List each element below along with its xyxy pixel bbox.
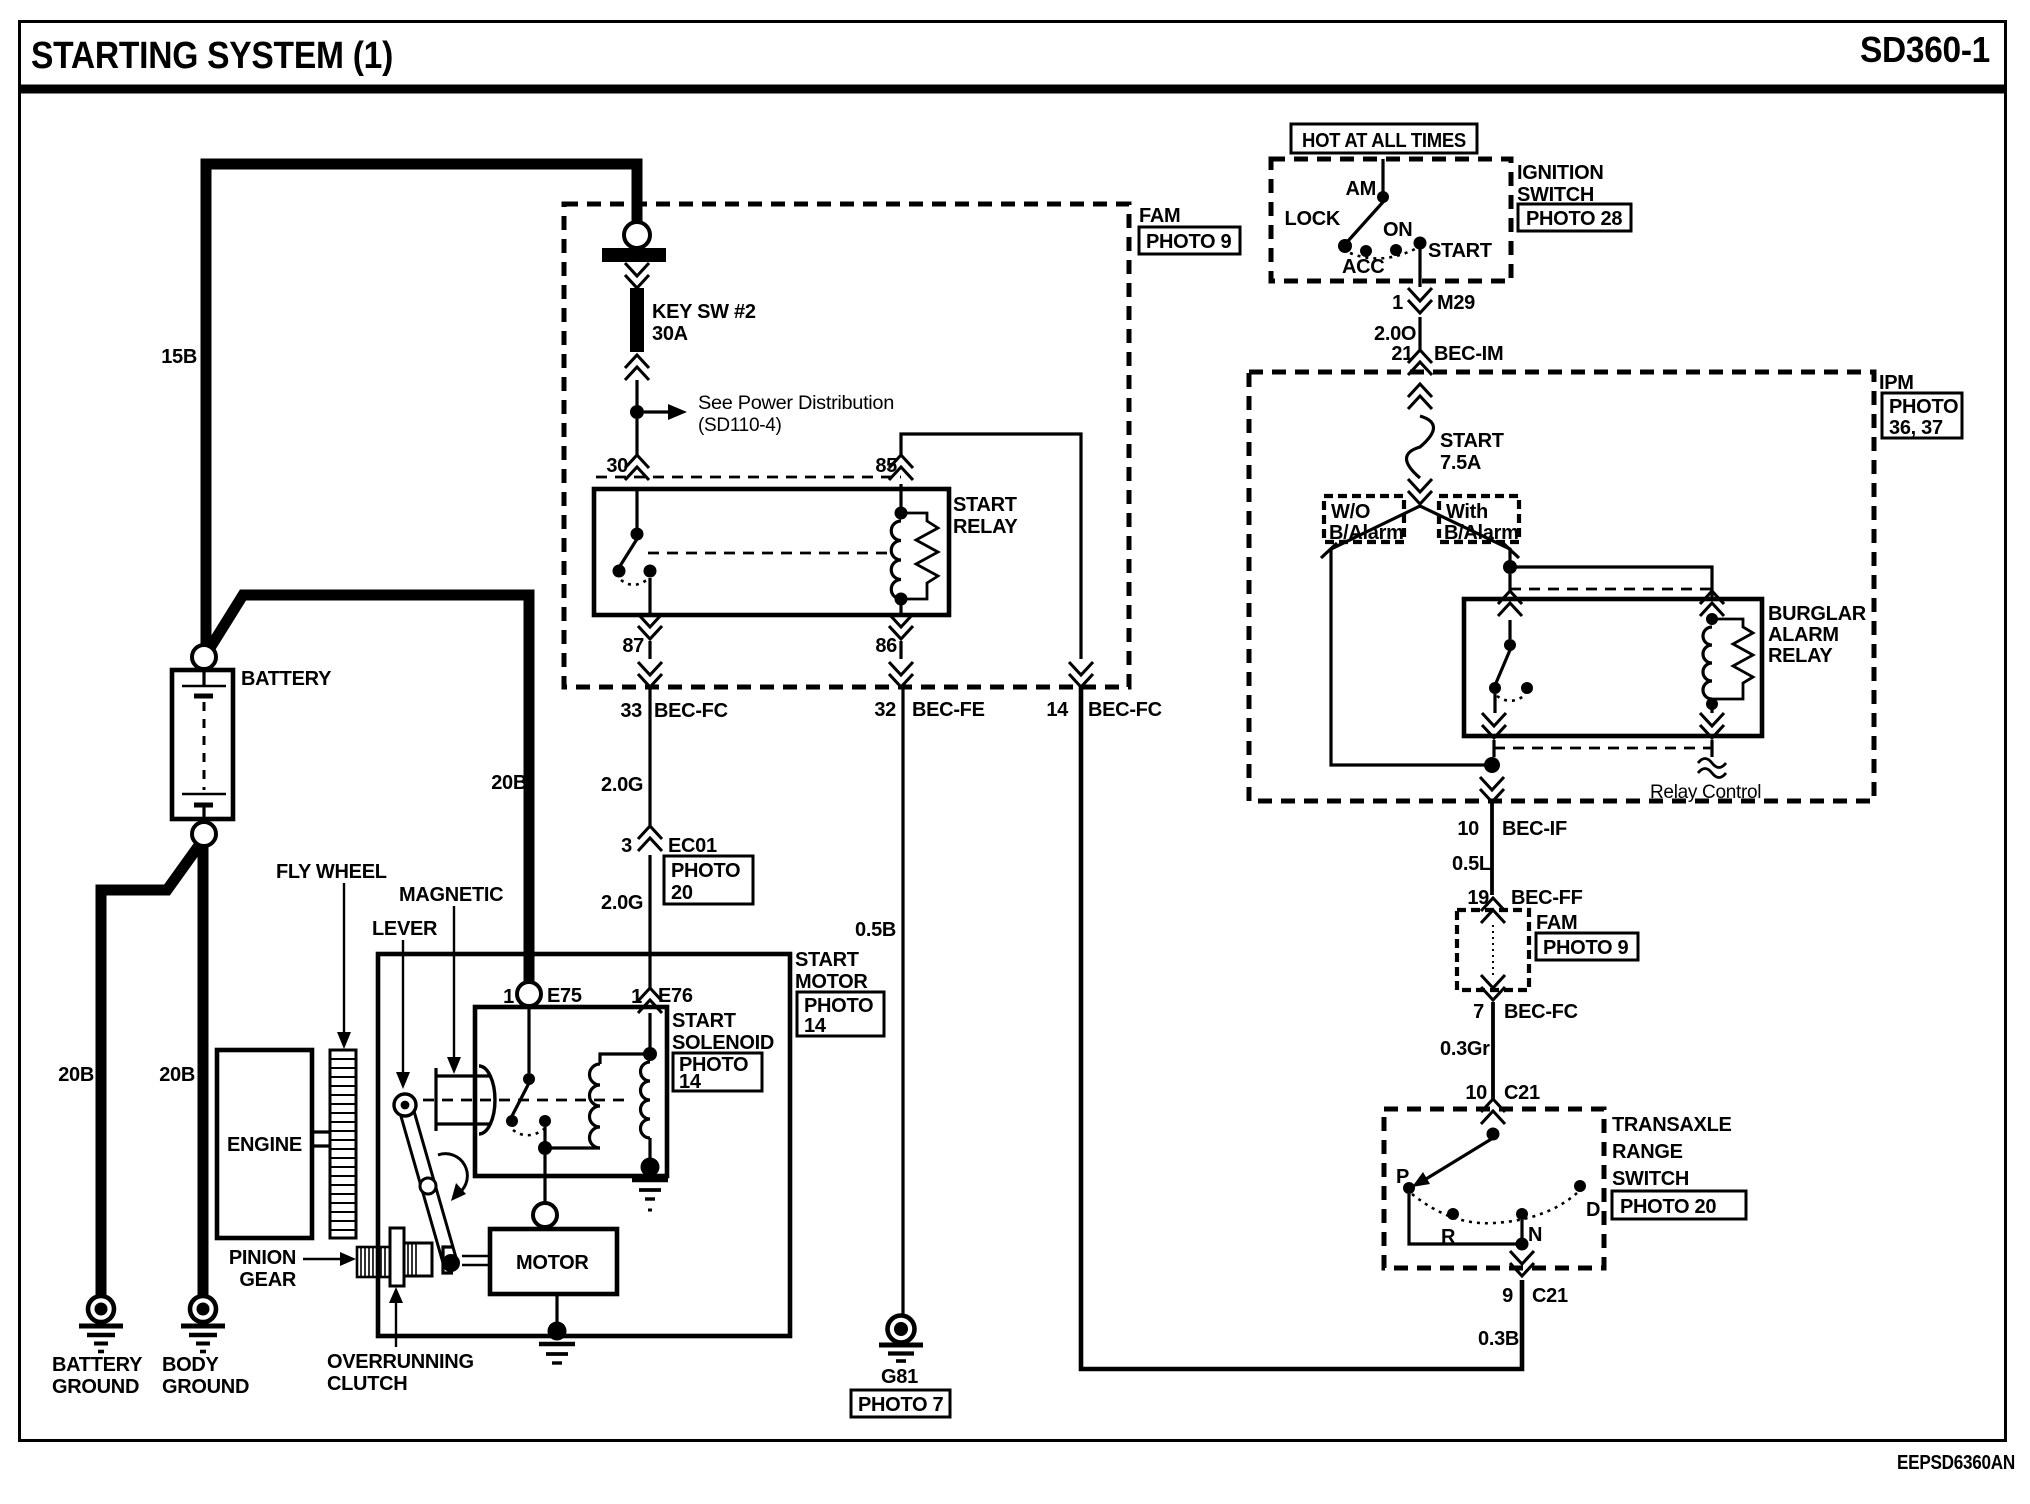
svg-text:14: 14 (679, 1071, 702, 1093)
svg-text:START: START (672, 1010, 736, 1032)
svg-text:ACC: ACC (1342, 256, 1384, 278)
svg-text:STARTING SYSTEM (1): STARTING SYSTEM (1) (31, 35, 393, 77)
svg-text:10: 10 (1465, 1082, 1487, 1104)
clutch fork bracket (443, 1247, 489, 1273)
engine ENGINE (217, 1050, 312, 1238)
svg-text:2.0G: 2.0G (601, 774, 643, 796)
pinion gear (357, 1247, 390, 1277)
svg-text:OVERRUNNING: OVERRUNNING (327, 1351, 474, 1373)
node LOCK contact (1285, 208, 1352, 253)
svg-text:RANGE: RANGE (1612, 1141, 1683, 1163)
label OVERRUNNING CLUTCH with leader (327, 1287, 474, 1395)
svg-text:EEPSD6360AN: EEPSD6360AN (1897, 1452, 2015, 1474)
svg-text:KEY SW #2: KEY SW #2 (652, 301, 756, 323)
FAM passthrough dashed box (1457, 910, 1529, 990)
svg-text:LOCK: LOCK (1285, 208, 1341, 230)
svg-text:E76: E76 (658, 985, 693, 1007)
node motor ground junction (548, 1322, 567, 1341)
svg-text:START: START (1440, 430, 1504, 452)
wire relay output to junction (1492, 740, 1495, 757)
svg-text:1: 1 (1392, 292, 1403, 314)
svg-text:87: 87 (622, 635, 644, 657)
dotted travel arc ignition (1350, 248, 1417, 258)
svg-text:ON: ON (1383, 219, 1412, 241)
svg-text:10: 10 (1457, 818, 1479, 840)
connector EC01 pin 3 (621, 826, 717, 857)
photo box PHOTO 14 start solenoid (673, 1053, 762, 1093)
svg-text:See Power Distribution: See Power Distribution (698, 393, 894, 414)
FAM module dashed box (564, 204, 1129, 687)
dashed relay connector line burglar (1510, 588, 1712, 591)
lever rotation arrow (438, 1154, 467, 1201)
svg-text:PHOTO 28: PHOTO 28 (1526, 208, 1622, 230)
svg-text:C21: C21 (1504, 1082, 1540, 1104)
svg-text:PHOTO 9: PHOTO 9 (1543, 937, 1629, 959)
node coil junction E76 (643, 1047, 657, 1061)
ground motor earth (539, 1344, 575, 1363)
svg-text:AM: AM (1345, 178, 1376, 200)
photo box PHOTO 14 start motor (797, 992, 884, 1037)
label PINION GEAR with arrow (229, 1247, 356, 1291)
svg-text:IGNITION: IGNITION (1517, 162, 1604, 184)
svg-text:BEC-IF: BEC-IF (1502, 818, 1567, 840)
start relay resistor (901, 513, 938, 599)
option box W/O B/Alarm (1324, 496, 1404, 544)
burglar alarm relay coil (1703, 613, 1718, 713)
svg-text:86: 86 (875, 635, 897, 657)
svg-text:BEC-FC: BEC-FC (654, 700, 728, 722)
svg-text:7.5A: 7.5A (1440, 452, 1481, 474)
svg-text:32: 32 (874, 699, 896, 721)
terminal 87 connector (622, 614, 662, 657)
node solenoid switch junction (538, 1141, 552, 1155)
node ACC contact (1342, 245, 1384, 278)
fuse KEY SW #2 30A (602, 222, 756, 380)
svg-text:20B: 20B (58, 1064, 94, 1086)
svg-text:START: START (953, 494, 1017, 516)
svg-text:TRANSAXLE: TRANSAXLE (1612, 1114, 1732, 1136)
wire option split left branch (1321, 506, 1486, 765)
svg-text:PINION: PINION (229, 1247, 296, 1269)
terminal 85 connector (875, 455, 913, 480)
svg-text:0.5B: 0.5B (855, 919, 896, 941)
magnetic plunger (436, 1066, 495, 1134)
svg-text:SD360-1: SD360-1 (1860, 29, 1990, 70)
wire 2.0O M29 to BEC-IM (1374, 317, 1420, 350)
wire junction to pull-in coil (545, 1146, 600, 1149)
wire 86 to FAM edge (899, 641, 902, 659)
svg-text:PHOTO 7: PHOTO 7 (858, 1394, 944, 1416)
svg-text:M29: M29 (1437, 292, 1475, 314)
svg-text:SOLENOID: SOLENOID (672, 1032, 774, 1054)
start solenoid box (475, 1007, 667, 1176)
node solenoid ground junction (641, 1158, 660, 1177)
wire 2.0G from 33 to EC01 (601, 686, 650, 827)
svg-text:N: N (1528, 1224, 1542, 1246)
photo box PHOTO 28 (1518, 204, 1631, 231)
svg-text:BATTERY: BATTERY (52, 1354, 143, 1376)
svg-text:RELAY: RELAY (1768, 645, 1833, 667)
svg-text:GROUND: GROUND (162, 1376, 249, 1398)
label START MOTOR (795, 949, 868, 993)
photo box PHOTO 9 lower (1536, 933, 1638, 960)
connector 10 C21 (1465, 1082, 1540, 1124)
connector 9 C21 (1502, 1251, 1568, 1307)
svg-text:30A: 30A (652, 323, 688, 345)
connector IPM fuse holder bottom (1408, 479, 1432, 504)
svg-text:Relay Control: Relay Control (1650, 782, 1761, 803)
option box With B/Alarm (1439, 496, 1519, 544)
start relay switch (613, 489, 657, 615)
wire E76 down to coils (648, 1013, 651, 1048)
svg-text:G81: G81 (881, 1366, 918, 1388)
overrunning clutch body (404, 1243, 432, 1276)
svg-text:BEC-FE: BEC-FE (912, 699, 985, 721)
terminal 86 connector (875, 614, 913, 657)
ignition switch dashed box (1271, 159, 1511, 281)
svg-text:PHOTO 20: PHOTO 20 (1620, 1196, 1716, 1218)
photo box PHOTO 9 FAM (1139, 227, 1240, 254)
wire 20B battery to battery ground (58, 844, 200, 1297)
dashed line below relay (1494, 747, 1712, 750)
svg-text:START: START (1428, 240, 1492, 262)
svg-text:9: 9 (1502, 1285, 1513, 1307)
ground solenoid earth (632, 1180, 668, 1210)
node output junction N (1516, 1238, 1529, 1251)
connector 10 BEC-IF (1457, 777, 1567, 840)
node ON contact (1383, 219, 1412, 256)
connector 19 BEC-FF (1467, 887, 1582, 923)
label FLY WHEEL with leader (276, 861, 387, 1049)
dashed actuation line lever to solenoid switch (404, 1099, 628, 1102)
svg-text:SWITCH: SWITCH (1612, 1168, 1689, 1190)
svg-text:15B: 15B (161, 346, 197, 368)
svg-text:PHOTO: PHOTO (671, 860, 740, 882)
svg-text:FAM: FAM (1536, 912, 1577, 934)
node output junction (1484, 757, 1500, 773)
wire fuse to junction (635, 380, 638, 406)
ground G81 (879, 1316, 923, 1389)
relay output terminal connector (1482, 713, 1506, 738)
terminal 30 connector (606, 455, 649, 480)
burglar alarm relay contact terminal connector (1498, 591, 1522, 616)
wire 2.0G from EC01 to E76 (601, 855, 650, 988)
svg-text:GEAR: GEAR (239, 1269, 296, 1291)
coil hold-in winding (641, 1062, 651, 1160)
transaxle range switch dashed box (1384, 1109, 1604, 1268)
wire 0.5B from 32 to G81 (855, 686, 903, 1316)
wire junction to relay terminal 30 (635, 419, 638, 456)
dotted travel arc range switch (1412, 1193, 1577, 1223)
connector M29 pin 1 (1392, 288, 1475, 314)
wire motor to ground (555, 1294, 558, 1322)
svg-text:CLUTCH: CLUTCH (327, 1373, 407, 1395)
photo box PHOTO 20 transaxle (1612, 1191, 1746, 1219)
svg-text:7: 7 (1473, 1001, 1484, 1023)
svg-text:14: 14 (1046, 699, 1069, 721)
wire junction to relay contact (1508, 574, 1511, 592)
node contact N (1516, 1208, 1542, 1246)
wire 14 BEC-FC down and across to transaxle switch (1081, 686, 1522, 1369)
svg-text:P: P (1396, 1166, 1409, 1188)
svg-text:BEC-FF: BEC-FF (1511, 887, 1583, 909)
svg-text:BURGLAR: BURGLAR (1768, 603, 1867, 625)
svg-text:RELAY: RELAY (953, 516, 1018, 538)
wire 87 to FAM edge (648, 641, 651, 659)
range switch arm with arrowhead (1412, 1138, 1493, 1187)
svg-text:BEC-IM: BEC-IM (1434, 343, 1503, 365)
wire 20B battery to body ground (159, 845, 203, 1297)
start motor box (378, 954, 790, 1336)
wire N contact down (1520, 1220, 1523, 1244)
label BURGLAR ALARM RELAY (1768, 603, 1867, 667)
photo box PHOTO 20 EC01 (664, 856, 753, 904)
svg-text:BODY: BODY (162, 1354, 220, 1376)
svg-text:C21: C21 (1532, 1285, 1568, 1307)
connector 7 BEC-FC (1473, 975, 1578, 1023)
svg-text:(SD110-4): (SD110-4) (698, 415, 782, 436)
connector E75 pin 1 (503, 982, 582, 1008)
wire switch junction to motor (543, 1155, 546, 1203)
label IGNITION SWITCH (1517, 162, 1604, 206)
svg-text:3: 3 (621, 835, 632, 857)
flywheel FLY WHEEL (330, 1050, 356, 1238)
svg-text:LEVER: LEVER (372, 918, 438, 940)
ignition switch arm (1348, 202, 1383, 241)
svg-text:FLY WHEEL: FLY WHEEL (276, 861, 387, 883)
svg-text:20B: 20B (159, 1064, 195, 1086)
svg-text:IPM: IPM (1879, 372, 1914, 394)
label TRANSAXLE RANGE SWITCH (1612, 1114, 1732, 1190)
see power distribution arrow (644, 393, 894, 436)
svg-text:36, 37: 36, 37 (1889, 417, 1943, 439)
svg-text:W/O: W/O (1331, 501, 1370, 523)
connector 14 BEC-FC (1046, 662, 1161, 721)
node motor terminal (533, 1203, 557, 1227)
svg-text:0.5L: 0.5L (1452, 853, 1491, 875)
lever arm (394, 1094, 460, 1272)
svg-text:MOTOR: MOTOR (795, 971, 868, 993)
svg-text:20B: 20B (491, 772, 527, 794)
svg-text:0.3B: 0.3B (1478, 1328, 1519, 1350)
node with alarm junction (1503, 560, 1517, 574)
battery BATTERY (172, 668, 332, 819)
node range switch pivot (1487, 1128, 1500, 1141)
burglar alarm relay coil terminal connector (1700, 591, 1724, 616)
fuse START 7.5A (1407, 416, 1504, 478)
svg-text:14: 14 (804, 1015, 827, 1037)
ground battery ground (52, 1296, 143, 1398)
engine to flywheel shaft (312, 1132, 329, 1146)
svg-text:HOT AT ALL TIMES: HOT AT ALL TIMES (1302, 130, 1466, 152)
wire P to N output (1409, 1194, 1516, 1244)
svg-text:GROUND: GROUND (52, 1376, 139, 1398)
dotted wire through FAM passthrough (1492, 925, 1494, 975)
connector E76 pin 1 (631, 985, 693, 1013)
motor MOTOR (490, 1229, 617, 1294)
node START contact (1414, 237, 1492, 263)
burglar alarm relay switch (1489, 620, 1533, 713)
label START SOLENOID (672, 1010, 774, 1054)
wire 0.3Gr BEC-FC to C21 (1440, 1002, 1493, 1100)
svg-text:ALARM: ALARM (1768, 624, 1839, 646)
start relay box (594, 489, 949, 615)
burglar alarm relay box (1464, 599, 1762, 736)
label MAGNETIC with leader (399, 884, 503, 1074)
connector IPM fuse holder top (1408, 384, 1432, 409)
wire START output (1418, 249, 1421, 287)
wire 20B battery feed to start solenoid E75 (210, 595, 529, 981)
burglar alarm relay resistor (1712, 619, 1753, 699)
IPM module dashed box (1249, 372, 1874, 801)
solenoid switch (506, 1073, 551, 1142)
photo box PHOTO 7 G81 (851, 1390, 950, 1417)
svg-text:B/Alarm: B/Alarm (1444, 522, 1519, 544)
relay control terminal connector (1700, 713, 1724, 738)
connector 21 BEC-IM (1391, 343, 1503, 375)
svg-text:20: 20 (671, 882, 693, 904)
node power distribution junction (630, 405, 644, 419)
svg-text:33: 33 (620, 700, 642, 722)
node contact D (1574, 1180, 1600, 1221)
svg-text:0.3Gr: 0.3Gr (1440, 1038, 1490, 1060)
svg-text:BEC-FC: BEC-FC (1504, 1001, 1578, 1023)
wire coil junction to pull-in coil top (600, 1054, 646, 1064)
hot at all times box (1291, 124, 1477, 153)
svg-text:BATTERY: BATTERY (241, 668, 332, 690)
label START RELAY (953, 494, 1018, 538)
coil pull-in winding (590, 1064, 601, 1148)
connector 32 BEC-FE (874, 662, 984, 721)
wire 0.5L BEC-IF to BEC-FF (1452, 800, 1492, 895)
node contact R (1441, 1208, 1459, 1248)
svg-text:2.0O: 2.0O (1374, 323, 1416, 345)
node contact P (1396, 1166, 1415, 1194)
wire 85 up over to BEC-FC 14 (901, 434, 1081, 659)
wire 15B thick battery feed to fuse (161, 164, 637, 646)
svg-text:START: START (795, 949, 859, 971)
svg-text:PHOTO 9: PHOTO 9 (1146, 231, 1232, 253)
photo box PHOTO 36 37 IPM (1882, 393, 1962, 439)
label LEVER with leader (372, 918, 438, 1089)
svg-text:D: D (1586, 1199, 1600, 1221)
svg-text:BEC-FC: BEC-FC (1088, 699, 1162, 721)
svg-text:E75: E75 (547, 985, 582, 1007)
node battery negative terminal (192, 822, 216, 846)
wire E75 to solenoid switch (527, 1006, 530, 1073)
svg-text:2.0G: 2.0G (601, 892, 643, 914)
wire hot feed into ignition switch (1381, 159, 1384, 192)
dashed line relay armature to coil (648, 552, 894, 555)
relay control squiggle (1650, 740, 1761, 803)
connector 33 BEC-FC (620, 662, 727, 722)
wire option split right branch (1420, 506, 1519, 561)
overrunning clutch flange (390, 1228, 404, 1286)
svg-text:FAM: FAM (1139, 205, 1180, 227)
wire C21 into switch (1491, 1128, 1494, 1130)
svg-text:PHOTO: PHOTO (1889, 396, 1958, 418)
node AM contact (1345, 178, 1389, 203)
svg-text:MOTOR: MOTOR (516, 1252, 589, 1274)
ground body ground (162, 1296, 249, 1398)
svg-text:ENGINE: ENGINE (227, 1134, 302, 1156)
svg-text:MAGNETIC: MAGNETIC (399, 884, 503, 906)
svg-text:PHOTO: PHOTO (804, 995, 873, 1017)
dashed relay connector line (596, 476, 901, 479)
wire junction to relay coil feed (1510, 567, 1712, 600)
start relay coil (891, 484, 907, 615)
svg-text:EC01: EC01 (668, 835, 717, 857)
node battery positive terminal (192, 645, 216, 669)
